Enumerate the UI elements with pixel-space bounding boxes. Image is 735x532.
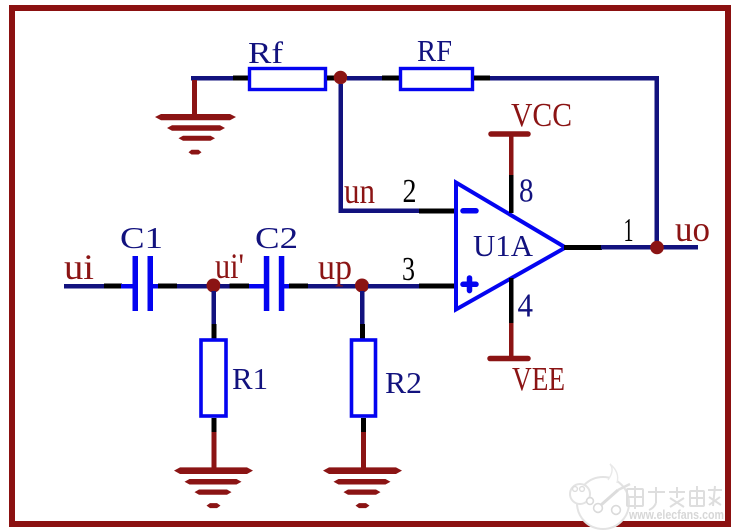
resistor RF xyxy=(401,69,473,90)
wire: dot to RF (navy) xyxy=(347,76,383,81)
VEE bar xyxy=(490,356,528,362)
ground (top-left) xyxy=(155,114,236,155)
wire: right vertical feedback run xyxy=(655,76,660,247)
wire: ui' node down to R1 (navy) xyxy=(212,291,217,324)
svg-text:www.elecfans.com: www.elecfans.com xyxy=(628,508,724,522)
wire: red drop to ground (R1) xyxy=(212,432,217,468)
wire: C1 to ui' node (navy) xyxy=(177,284,209,289)
watermark text xyxy=(627,486,722,510)
resistor R2 xyxy=(352,340,376,416)
wire: horizontal to pin 2 (navy) xyxy=(339,209,420,214)
svg-text:ui: ui xyxy=(64,247,94,287)
ground (under R1) xyxy=(174,467,253,508)
svg-text:4: 4 xyxy=(518,288,534,325)
junction dot (up node) xyxy=(355,279,369,293)
op-amp U1A xyxy=(456,183,566,310)
op-amp plus input mark xyxy=(463,278,476,291)
svg-text:RF: RF xyxy=(417,33,452,68)
svg-text:8: 8 xyxy=(519,173,534,210)
svg-text:VCC: VCC xyxy=(511,97,572,134)
wire: pin 2 stub (black) xyxy=(419,209,456,214)
wire: Rf left pin (black) xyxy=(233,76,248,81)
capacitor C1 xyxy=(121,256,158,311)
svg-text:3: 3 xyxy=(402,251,415,288)
wire: R2 bottom pin (black) xyxy=(361,418,366,432)
wire: red drop to top-left ground xyxy=(192,80,197,117)
wire: C1 left pin (black) xyxy=(104,284,122,289)
svg-text:R2: R2 xyxy=(385,365,422,400)
wire: up to pin 3 (navy) xyxy=(368,284,419,289)
svg-text:2: 2 xyxy=(403,173,417,210)
capacitor C2 xyxy=(249,256,290,311)
svg-text:R1: R1 xyxy=(232,361,268,396)
wire: Rf right pin (black) xyxy=(327,76,336,81)
wire: RF right pin (black) xyxy=(474,76,490,81)
wire: C2 to up node (navy) xyxy=(308,284,356,289)
resistor Rf xyxy=(250,69,326,90)
wire: C2 left pin (black) xyxy=(230,284,250,289)
watermark logo xyxy=(570,464,630,529)
wire: pin 4 stub (black) xyxy=(509,278,514,323)
svg-text:U1A: U1A xyxy=(473,228,534,263)
wire: RF to right corner (navy) xyxy=(490,76,659,81)
resistor R1 xyxy=(201,340,226,416)
wire: vertical from top node down (navy) xyxy=(339,84,344,209)
junction dot (uo node) xyxy=(650,241,664,255)
wire: VEE drop (red) xyxy=(509,323,514,357)
wire: C2 right pin (black) xyxy=(289,284,308,289)
wire: red drop to ground (R2) xyxy=(361,432,366,468)
svg-text:ui': ui' xyxy=(215,246,244,286)
wire: up node down to R2 (navy) xyxy=(360,291,365,324)
svg-text:un: un xyxy=(344,171,375,211)
wire: R1 bottom pin (black) xyxy=(212,418,217,432)
junction dot (ui' node) xyxy=(207,279,221,293)
svg-text:Rf: Rf xyxy=(248,35,284,70)
wire: output to uo (navy) xyxy=(601,245,698,250)
svg-text:1: 1 xyxy=(624,212,634,249)
svg-text:up: up xyxy=(318,247,352,287)
ground (under R2) xyxy=(323,467,402,508)
wire: R1 top pin (black) xyxy=(212,324,217,339)
svg-text:C1: C1 xyxy=(120,220,163,255)
svg-text:C2: C2 xyxy=(255,220,298,255)
wire: ui' to C2 (navy) xyxy=(220,284,231,289)
VCC bar xyxy=(491,131,528,137)
wire: VCC drop (red) xyxy=(509,136,514,175)
wire: ground stub to Rf left (navy part) xyxy=(191,76,233,81)
wire: ui input (navy) xyxy=(64,284,105,289)
wire: R2 top pin (black) xyxy=(360,324,365,339)
wire: C1 right pin (black) xyxy=(158,284,177,289)
wire: pin 3 stub (black) xyxy=(419,284,456,289)
wire: pin 1 output stub (black) xyxy=(564,245,602,250)
wire: pin 8 stub (black) xyxy=(509,175,514,213)
svg-text:uo: uo xyxy=(675,209,710,249)
svg-text:VEE: VEE xyxy=(512,361,565,398)
junction dot (Rf/RF/un node) xyxy=(334,71,348,85)
wire: RF left pin (black) xyxy=(382,76,400,81)
op-amp minus input mark xyxy=(463,208,476,214)
